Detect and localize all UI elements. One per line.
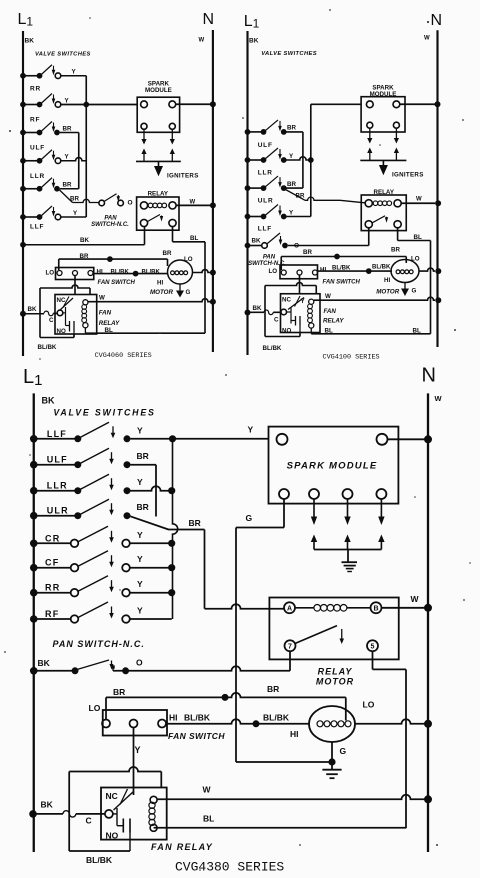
valve switch ULR (CVG4100) — [245, 214, 251, 220]
wire row1 Y to collector (CVG4060) — [61, 75, 86, 77]
svg-text:LO: LO — [89, 703, 101, 713]
igniter gap x=144 (CVG4060) — [143, 129, 145, 139]
svg-text:ULR: ULR — [258, 198, 274, 205]
svg-text:VALVE SWITCHES: VALVE SWITCHES — [35, 52, 91, 58]
wire BL vertical (relay 5 to fan relay) — [405, 669, 407, 828]
fan relay armature link — [113, 813, 117, 815]
igniter gap x=172.3 (CVG4060) — [171, 129, 173, 139]
wire Y collector vertical (CVG4100) — [310, 104, 312, 216]
fan relay coil — [150, 796, 157, 803]
wire ULR BR diagonal — [130, 516, 168, 529]
svg-text:L1: L1 — [18, 11, 34, 29]
svg-text:LLF: LLF — [47, 429, 67, 439]
fan relay K2 box — [101, 788, 167, 840]
wire BL fan relay coil to relay motor 5 — [154, 827, 406, 829]
wire BR row (CVG4100) — [281, 256, 406, 258]
fan switch terminals (CVG4100) — [281, 270, 286, 275]
svg-text:BK: BK — [41, 800, 54, 810]
motor M1 (bottom) — [309, 706, 355, 742]
svg-text:LO: LO — [411, 256, 420, 263]
svg-text:NO: NO — [282, 327, 291, 334]
svg-text:HI: HI — [384, 277, 390, 284]
svg-text:BK: BK — [249, 38, 259, 45]
junction dot spark/N (CVG4100) — [435, 101, 441, 107]
svg-text:BL/BK: BL/BK — [142, 269, 161, 275]
valve switch ULR — [30, 512, 38, 520]
svg-text:C: C — [86, 816, 92, 826]
svg-text:LLF: LLF — [258, 225, 272, 232]
svg-text:O: O — [128, 200, 133, 207]
svg-text:RELAY: RELAY — [148, 191, 169, 198]
wire ULR Y to collector (CVG4100) — [287, 216, 311, 218]
svg-text:RELAY: RELAY — [318, 667, 353, 677]
wire BR (ULR net) — [168, 529, 205, 531]
svg-text:MOTOR: MOTOR — [316, 677, 354, 687]
wire BL coil bottom (CVG4100) — [310, 328, 312, 334]
svg-text:HI: HI — [157, 280, 163, 287]
svg-text:LLR: LLR — [47, 481, 68, 491]
wire BR drop to fan switch LO (CVG4100) — [280, 257, 282, 271]
wire RR Y to spark module (CVG4060) — [61, 104, 137, 106]
wire L1 bus BK (bottom) — [33, 393, 35, 852]
fan switch terminals (CVG4060) — [57, 271, 62, 276]
junction dot BL/BK — [253, 720, 260, 727]
fan relay terminal C — [105, 810, 113, 818]
svg-text:VALVE SWITCHES: VALVE SWITCHES — [53, 408, 155, 418]
svg-text:ULF: ULF — [258, 142, 273, 149]
wire spark module to N (CVG4060) — [176, 103, 210, 105]
spark module terminal N-in — [377, 434, 388, 445]
fan switch terminal mid — [130, 720, 138, 728]
svg-text:BL/BK: BL/BK — [263, 345, 282, 352]
wire BR row to motor — [106, 693, 346, 698]
svg-text:RF: RF — [30, 117, 40, 124]
wire relay B to N (CVG4060) — [176, 204, 210, 206]
igniter bar (CVG4060) — [136, 160, 181, 162]
svg-text:Y: Y — [137, 425, 143, 435]
wire BL coil bottom (CVG4060) — [85, 332, 205, 334]
relay contact 7 (CVG4060) — [140, 219, 147, 226]
wire outer loop (CVG4060) — [40, 285, 90, 288]
valve switch ULF (CVG4060) — [20, 158, 26, 164]
fan relay NC contact blade — [114, 792, 134, 811]
svg-text:LO: LO — [184, 256, 193, 263]
svg-text:Y: Y — [248, 425, 254, 435]
svg-text:RR: RR — [45, 583, 60, 593]
junction dot spark/N (CVG4060) — [210, 101, 216, 107]
pan switch (CVG4060) — [99, 200, 105, 206]
svg-text:MODULE: MODULE — [145, 87, 172, 94]
wire motor to N (CVG4100) — [419, 268, 435, 271]
valve switch CF — [30, 564, 38, 572]
wire BR drop to fan switch LO (CVG4060) — [58, 259, 60, 270]
svg-text:BL: BL — [413, 328, 421, 335]
igniter arrow (CVG4060) — [158, 161, 160, 166]
junction dot BL/BK (CVG4100) — [366, 268, 372, 274]
svg-text:N: N — [203, 11, 215, 28]
svg-text:BK: BK — [28, 306, 37, 313]
fan relay coil bottom lead (CVG4060) — [84, 328, 86, 333]
wire BK to fan relay C (CVG4100) — [245, 310, 251, 316]
relay motor coil terminal A — [284, 602, 295, 613]
svg-text:ULR: ULR — [47, 506, 69, 516]
wire BK to fan relay C (CVG4060) — [20, 311, 26, 317]
relay K1 (CVG4100) — [361, 195, 406, 231]
svg-text:BL/BK: BL/BK — [184, 713, 211, 723]
wire ULF Y hops BR leg (CVG4060) — [61, 158, 86, 161]
valve switch ULF (CVG4100) — [245, 157, 251, 163]
motor coil (CVG4100) — [396, 270, 400, 274]
svg-text:CF: CF — [45, 558, 59, 568]
wire W coil to N (CVG4060) — [88, 299, 210, 302]
svg-text:B: B — [373, 606, 378, 613]
valve switch top (CVG4060) — [20, 73, 26, 79]
svg-text:BR: BR — [63, 182, 72, 189]
svg-text:W: W — [203, 785, 212, 795]
junction dot BR row (CVG4060) — [107, 256, 113, 262]
svg-text:BL/BK: BL/BK — [263, 713, 290, 723]
svg-text:Y: Y — [137, 606, 143, 616]
svg-text:G: G — [340, 746, 347, 756]
valve switch RR — [30, 589, 38, 597]
relay terminal A (CVG4060) — [140, 202, 147, 209]
svg-text:BL/BK: BL/BK — [332, 266, 351, 272]
wire fan switch HI to motor (BL/BK) — [166, 719, 310, 724]
wire LLR BR to pan switch (CVG4060) — [60, 188, 79, 190]
spark module terminals top (CVG4060) — [141, 101, 148, 108]
svg-text:BR: BR — [137, 451, 149, 461]
wire row1 BR leg (CVG4100) — [287, 131, 303, 133]
valve switch RR (CVG4060) — [20, 102, 26, 108]
svg-text:BK: BK — [25, 38, 35, 45]
svg-text:MOTOR: MOTOR — [150, 289, 173, 296]
svg-text:BR: BR — [137, 502, 149, 512]
wire spark module to N bus — [388, 438, 426, 440]
igniter spark gap at x=314 — [313, 499, 315, 518]
pan switch (bottom) — [30, 667, 38, 675]
svg-text:FAN RELAY: FAN RELAY — [151, 842, 213, 852]
svg-text:RELAY: RELAY — [99, 320, 120, 327]
fan switch box (CVG4100) — [280, 265, 318, 279]
wire BL vertical (CVG4060) — [204, 242, 206, 333]
fan relay NO contact (CVG4100) — [287, 311, 292, 313]
svg-text:5: 5 — [371, 644, 375, 651]
motor ground (CVG4100) — [404, 283, 406, 289]
relay motor actuator arrow — [341, 629, 343, 640]
spark module U1 (CVG4100) — [361, 97, 405, 132]
relay terminal B (CVG4100) — [394, 200, 401, 207]
wire motor to N (CVG4060) — [193, 270, 211, 273]
svg-text:W: W — [411, 594, 420, 604]
svg-text:BR: BR — [63, 125, 72, 132]
junction dot RR/Y-collector — [168, 589, 175, 596]
wire RR Y — [130, 592, 172, 594]
valve switch ULF — [30, 461, 38, 469]
svg-text:NC: NC — [282, 297, 291, 304]
svg-text:L1: L1 — [244, 13, 260, 31]
svg-text:VALVE SWITCHES: VALVE SWITCHES — [261, 51, 317, 57]
svg-text:W: W — [199, 38, 205, 44]
svg-text:HI: HI — [320, 267, 326, 274]
igniter ground bus — [314, 549, 381, 551]
svg-text:BR: BR — [163, 250, 172, 257]
svg-text:7: 7 — [288, 644, 292, 651]
svg-text:HI: HI — [169, 713, 178, 723]
junction dot W/N — [424, 795, 432, 803]
wire relay 5 BL leg (CVG4100) — [397, 228, 399, 241]
fan relay box (CVG4100) — [281, 294, 321, 333]
valve switch RF (CVG4060) — [20, 130, 26, 136]
svg-text:BR: BR — [80, 253, 89, 260]
junction dot BL/BK (CVG4060) — [133, 271, 139, 277]
wire G vertical to motor ground — [235, 528, 237, 763]
junction dot motor ground — [328, 758, 335, 765]
wire relay B to N bus — [382, 607, 426, 609]
pan switch row (CVG4100) — [245, 243, 251, 249]
valve switch LLR (CVG4060) — [20, 186, 26, 192]
svg-text:W: W — [435, 394, 443, 403]
wire L1 bus (CVG4060) — [22, 31, 24, 356]
svg-text:PAN SWITCH-N.C.: PAN SWITCH-N.C. — [53, 639, 145, 649]
wire pan switch to relay 7 (CVG4100) — [288, 245, 369, 247]
wire outer loop (CVG4100) — [265, 283, 316, 286]
svg-text:LLF: LLF — [30, 224, 44, 231]
svg-text:Y: Y — [137, 554, 143, 564]
svg-text:FAN: FAN — [99, 310, 112, 317]
fan relay coil (CVG4100) — [309, 299, 314, 304]
svg-text:W: W — [190, 200, 196, 206]
svg-text:BK: BK — [253, 305, 262, 312]
svg-text:PAN: PAN — [263, 255, 276, 261]
valve switch LLF (CVG4060) — [20, 214, 26, 220]
wire Y collector vertical (CVG4060) — [85, 76, 87, 217]
junction dot CR/Y-collector — [168, 540, 175, 547]
svg-text:FAN SWITCH: FAN SWITCH — [168, 731, 225, 741]
relay contact 7 (CVG4100) — [365, 221, 372, 228]
junction dot W/N (CVG4060) — [210, 299, 216, 305]
wire fan switch HI to motor BL/BK (CVG4100) — [317, 270, 392, 272]
wire fan switch HI to motor BL/BK (CVG4060) — [93, 273, 168, 275]
svg-text:BR: BR — [391, 247, 400, 254]
wire G from spark module — [283, 499, 285, 528]
wire Y fan switch to fan relay NC — [133, 728, 135, 796]
wire LLF Y to collector (CVG4060) — [61, 216, 86, 218]
svg-text:C: C — [49, 317, 54, 324]
motor M1 (CVG4060) — [168, 260, 193, 284]
junction dot Y collector (CVG4060) — [83, 102, 89, 108]
wire outer loop left/bottom — [68, 772, 70, 852]
wire RF Y — [130, 618, 172, 620]
wire BR drop into motor (CVG4060) — [167, 259, 169, 266]
relay motor contact 5 — [367, 640, 378, 651]
svg-text:SWITCH-N.C.: SWITCH-N.C. — [91, 222, 129, 228]
svg-text:ULF: ULF — [30, 145, 45, 152]
svg-text:N: N — [422, 365, 436, 387]
svg-text:BR: BR — [287, 181, 296, 188]
spark module igniter terminal 1 — [279, 489, 289, 499]
wire CF Y — [130, 567, 172, 569]
wire N bus (CVG4100) — [436, 30, 438, 347]
junction dot BK row (CVG4060) — [20, 242, 26, 248]
svg-text:CVG4100 SERIES: CVG4100 SERIES — [323, 354, 380, 362]
svg-text:BR: BR — [303, 249, 312, 256]
igniter arrow (CVG4100) — [382, 160, 384, 165]
svg-text:BL: BL — [203, 814, 214, 824]
svg-text:BL: BL — [190, 235, 198, 242]
spark module igniter terminal 2 — [309, 489, 319, 499]
wire LLR BR diagonal (CVG4100) — [287, 187, 303, 189]
wire BR down to relay motor — [204, 530, 206, 609]
svg-text:BL/BK: BL/BK — [111, 269, 130, 275]
svg-text:BR: BR — [287, 125, 296, 132]
relay motor coil — [295, 607, 314, 609]
svg-text:Y: Y — [135, 745, 141, 755]
wire BR drop to fan switch LO — [105, 697, 107, 720]
svg-text:BK: BK — [42, 396, 55, 406]
igniter spark gap at x=381.4 — [380, 499, 382, 518]
wire LLF Y to spark module — [131, 438, 269, 440]
igniter ground stem — [347, 550, 349, 563]
fan relay coil (CVG4060) — [83, 300, 88, 305]
motor M1 (CVG4100) — [391, 260, 419, 283]
svg-text:BL/BK: BL/BK — [38, 344, 57, 351]
motor coil (CVG4060) — [171, 271, 175, 275]
svg-text:RF: RF — [45, 609, 59, 619]
valve switch RF — [30, 615, 38, 623]
svg-text:BR: BR — [70, 196, 79, 203]
svg-text:BR: BR — [296, 193, 305, 200]
svg-text:BR: BR — [189, 518, 201, 528]
wire motor ground stem — [331, 742, 333, 762]
svg-text:G: G — [412, 288, 417, 295]
wire relay 5 BL leg (CVG4060) — [172, 227, 174, 242]
spark module igniter terminal 3 — [343, 489, 353, 499]
svg-text:BL: BL — [105, 327, 113, 334]
junction dot BR row — [222, 694, 229, 701]
motor winding coil — [317, 721, 323, 727]
fan switch terminal HI — [158, 720, 166, 728]
fan relay terminal C (CVG4100) — [281, 309, 287, 315]
relay motor coil terminal B — [371, 602, 382, 613]
junction dot motor/N — [424, 720, 432, 728]
svg-text:Y: Y — [137, 530, 143, 540]
svg-text:N: N — [431, 12, 443, 29]
svg-text:C: C — [274, 317, 279, 324]
junction dot motor/N (CVG4100) — [435, 268, 441, 274]
svg-text:LO: LO — [46, 270, 55, 277]
wire ULF BR down-leg — [131, 464, 157, 466]
spark module terminal L1-in — [277, 434, 288, 445]
wire N bus W (bottom) — [427, 393, 429, 852]
fan switch terminal LO — [102, 720, 110, 728]
fan switch S1 box (bottom) — [103, 710, 167, 736]
junction dot CF/Y-collector — [168, 564, 175, 571]
spark module U1 (bottom) — [269, 427, 399, 504]
svg-text:CR: CR — [45, 533, 60, 543]
relay coil (CVG4060) — [148, 203, 153, 208]
fan relay NO contact (CVG4060) — [63, 312, 66, 314]
wire Y fan switch to fan relay (CVG4060) — [74, 276, 76, 295]
svg-text:W: W — [416, 197, 422, 203]
ground symbol (igniters) — [342, 561, 358, 563]
junction dot W/N (CVG4100) — [435, 297, 441, 303]
valve switch top (CVG4100) — [245, 129, 251, 135]
relay motor K1 box — [269, 598, 398, 660]
wire Y to spark module (CVG4100) — [311, 103, 361, 105]
wire W coil to N (CVG4100) — [314, 297, 435, 300]
svg-text:FAN: FAN — [324, 308, 337, 315]
relay blade (CVG4100) — [372, 216, 385, 223]
wire relay 5 to BL leg — [372, 651, 374, 669]
svg-text:CVG4060 SERIES: CVG4060 SERIES — [95, 352, 152, 360]
relay coil (CVG4100) — [373, 201, 378, 206]
wire N bus (CVG4060) — [212, 30, 214, 352]
svg-text:CVG4380 SERIES: CVG4380 SERIES — [175, 860, 284, 875]
wire outer loop right leg — [160, 772, 162, 788]
wire CR Y — [130, 542, 172, 544]
wire BL vertical (CVG4100) — [430, 241, 432, 334]
relay terminal B (CVG4060) — [169, 202, 176, 209]
svg-text:BR: BR — [113, 687, 125, 697]
wire BR into relay motor coil A — [205, 604, 285, 608]
wire L1 bus (CVG4100) — [246, 31, 248, 355]
svg-text:LLR: LLR — [258, 170, 273, 177]
fan relay NO contact — [117, 825, 123, 827]
junction dot relayB/N — [424, 604, 432, 612]
spark module igniter terminals (CVG4060) — [141, 123, 147, 129]
relay contact 5 (CVG4100) — [394, 221, 401, 228]
junction dot spark/N — [424, 435, 432, 443]
svg-text:MOTOR: MOTOR — [376, 288, 399, 295]
wire Y collector vertical (jogs over BR) — [173, 439, 178, 619]
svg-text:Y: Y — [137, 477, 143, 487]
svg-text:BK: BK — [38, 658, 51, 668]
svg-text:PAN: PAN — [104, 216, 117, 222]
svg-text:BL/BK: BL/BK — [86, 855, 113, 865]
wire relay 7 to BK row (CVG4060) — [144, 227, 146, 245]
svg-text:IGNITERS: IGNITERS — [167, 173, 199, 180]
wire fan relay outer loop top — [69, 767, 161, 772]
wire BK to fan relay C — [29, 810, 37, 818]
svg-text:O: O — [136, 658, 143, 668]
junction dot motor/N (CVG4060) — [210, 270, 216, 276]
relay contact 5 (CVG4060) — [169, 219, 176, 226]
fan relay box (CVG4060) — [55, 295, 97, 335]
igniter gap x=396.4 (CVG4100) — [395, 128, 397, 138]
fan relay NC blade (CVG4100) — [288, 298, 304, 310]
valve switch LLR (CVG4100) — [245, 185, 251, 191]
junction dot BR row (CVG4100) — [334, 254, 340, 260]
wire W fan relay coil to N bus — [157, 795, 425, 800]
svg-text:FAN SWITCH: FAN SWITCH — [323, 280, 361, 286]
svg-text:ULF: ULF — [47, 455, 68, 465]
svg-text:G: G — [246, 513, 253, 523]
junction dot relay/N (CVG4060) — [210, 202, 216, 208]
spark module igniter terminals (CVG4100) — [367, 122, 373, 128]
scan noise specks — [427, 21, 429, 23]
relay K1 (CVG4060) — [137, 197, 179, 230]
svg-text:RELAY: RELAY — [323, 318, 344, 325]
svg-text:Y: Y — [137, 579, 143, 589]
svg-text:RELAY: RELAY — [374, 189, 395, 196]
svg-text:RR: RR — [30, 86, 41, 93]
junction dot LLF/Y-collector — [169, 435, 176, 442]
svg-text:BK: BK — [252, 238, 261, 245]
relay motor contact blade — [295, 626, 337, 644]
junction dot Y collector (CVG4100) — [308, 157, 314, 163]
spark module igniter terminal 4 — [376, 489, 386, 499]
svg-text:MODULE: MODULE — [370, 91, 397, 98]
